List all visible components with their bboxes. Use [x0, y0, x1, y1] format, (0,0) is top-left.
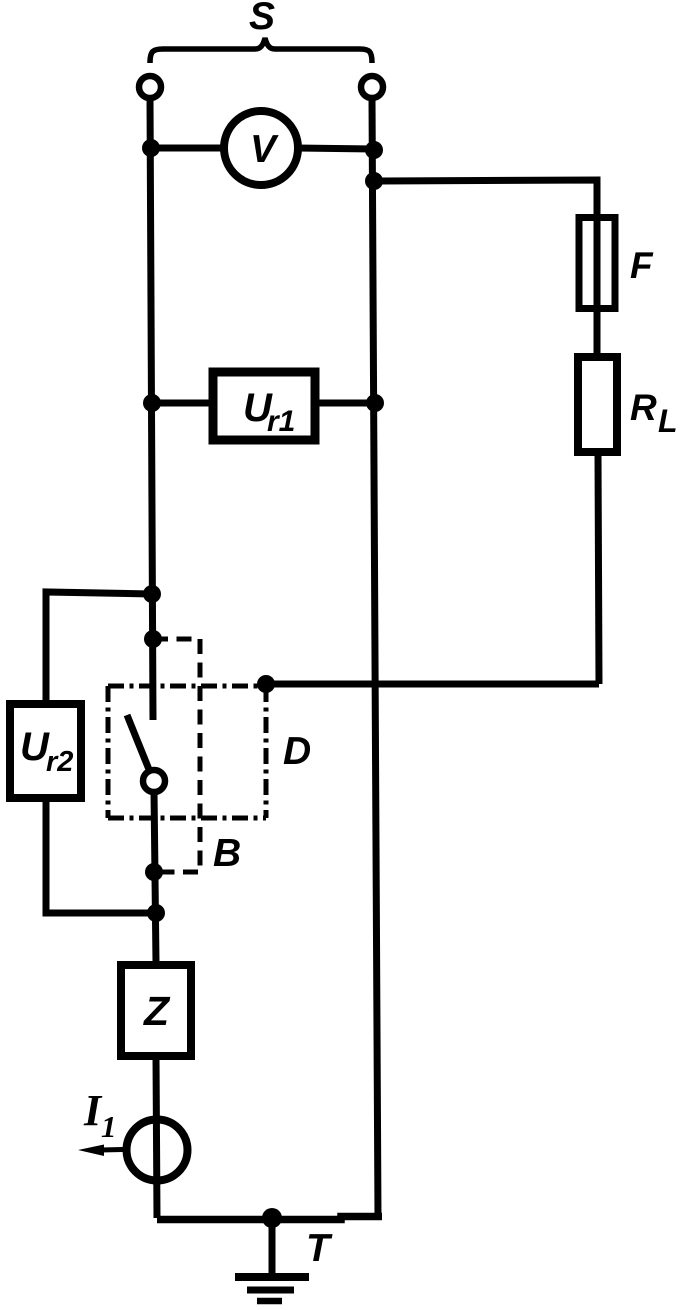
svg-text:r1: r1 [267, 405, 295, 438]
svg-text:F: F [630, 245, 654, 286]
svg-text:r2: r2 [46, 746, 73, 778]
svg-text:I: I [83, 1086, 103, 1135]
svg-text:S: S [249, 0, 275, 38]
svg-text:D: D [283, 730, 311, 773]
svg-text:1: 1 [101, 1109, 117, 1144]
svg-text:T: T [306, 1227, 333, 1270]
svg-text:V: V [250, 128, 279, 171]
svg-text:B: B [213, 832, 241, 875]
svg-text:Z: Z [143, 988, 171, 1034]
svg-text:L: L [658, 403, 678, 439]
svg-text:R: R [630, 387, 657, 428]
